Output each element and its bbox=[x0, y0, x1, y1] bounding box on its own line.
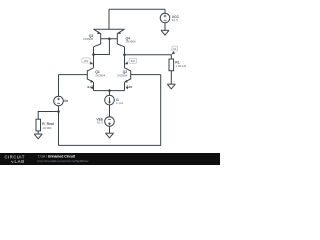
svg-text:10 V: 10 V bbox=[172, 18, 179, 22]
svg-text:2N3906: 2N3906 bbox=[126, 39, 137, 43]
svg-text:IC1: IC1 bbox=[84, 59, 89, 63]
svg-text:10 V: 10 V bbox=[97, 121, 104, 125]
svg-text:IE1: IE1 bbox=[87, 86, 91, 89]
svg-text:2N3906: 2N3906 bbox=[83, 37, 94, 41]
svg-text:http://circuitlab.com/c/zvmrw/: http://circuitlab.com/c/zvmrw/5g38z3e/ bbox=[38, 159, 89, 163]
svg-text:1 mA: 1 mA bbox=[116, 101, 124, 105]
svg-text:2N3904: 2N3904 bbox=[117, 73, 128, 77]
svg-text:Vin: Vin bbox=[63, 99, 68, 103]
svg-text:7.GA / Unnamed Circuit: 7.GA / Unnamed Circuit bbox=[38, 154, 76, 158]
svg-text:2N3904: 2N3904 bbox=[95, 73, 106, 77]
svg-text:1.00 kΩ: 1.00 kΩ bbox=[175, 64, 186, 68]
svg-text:∿LAB: ∿LAB bbox=[11, 159, 25, 164]
svg-text:IC2: IC2 bbox=[131, 59, 136, 63]
svg-text:10 MΩ: 10 MΩ bbox=[42, 126, 52, 130]
svg-text:IE2: IE2 bbox=[129, 86, 133, 89]
